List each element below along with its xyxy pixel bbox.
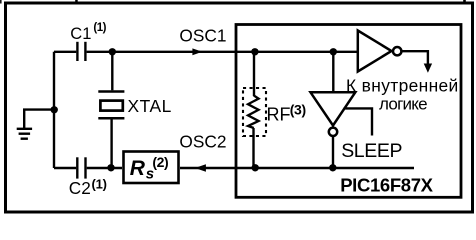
svg-text:XTAL: XTAL xyxy=(128,96,172,116)
crystal XTAL xyxy=(98,90,124,93)
wire C2 to Rs xyxy=(87,167,122,169)
wire buffer output xyxy=(402,51,428,64)
artifact tick left xyxy=(0,0,2,4)
svg-text:PIC16F87X: PIC16F87X xyxy=(340,174,433,195)
svg-text:логике: логике xyxy=(379,95,427,114)
svg-text:C1: C1 xyxy=(70,25,91,43)
svg-text:RF: RF xyxy=(267,105,291,125)
artifact tick x464 xyxy=(463,0,466,2)
op-amp U2 feedback inverter xyxy=(311,92,356,125)
wire RF top xyxy=(253,52,255,96)
svg-text:(1): (1) xyxy=(93,22,106,34)
node feedback-OSC2 xyxy=(329,164,336,171)
wire left vertical xyxy=(53,52,55,168)
wire C2 left segment xyxy=(54,167,76,169)
svg-text:SLEEP: SLEEP xyxy=(341,140,402,162)
svg-text:OSC2: OSC2 xyxy=(179,131,226,151)
svg-text:OSC1: OSC1 xyxy=(179,26,226,46)
svg-text:(1): (1) xyxy=(92,177,107,192)
svg-text:К внутренней: К внутренней xyxy=(346,75,459,95)
svg-text:R: R xyxy=(130,157,146,180)
capacitor C2 xyxy=(76,157,78,178)
svg-text:(2): (2) xyxy=(152,154,168,170)
wire OSC1 left segment xyxy=(54,51,76,53)
node ground branch xyxy=(51,106,58,113)
svg-text:(3): (3) xyxy=(290,102,306,118)
wire OSC2 xyxy=(180,167,414,169)
artifact tick x76 xyxy=(75,0,78,2)
node C2-XTAL-Rs xyxy=(107,164,114,171)
wire XTAL top drop xyxy=(111,52,113,91)
node inverter input branch xyxy=(330,48,337,55)
node RF-OSC1 xyxy=(251,48,258,55)
wire feedback output xyxy=(332,137,334,168)
dashed box around RF xyxy=(243,88,266,136)
svg-text:C2: C2 xyxy=(69,178,91,198)
wire SLEEP enable xyxy=(344,108,373,135)
ground xyxy=(17,128,32,130)
node C1-XTAL-OSC1 xyxy=(109,48,116,55)
arrow to internal logic xyxy=(424,64,432,73)
wire XTAL bottom drop xyxy=(110,118,112,168)
resistor RF zigzag xyxy=(248,96,259,129)
wire OSC1 main xyxy=(87,51,357,53)
op-amp U1 buffer to internal logic xyxy=(358,31,392,72)
wire RF bottom xyxy=(252,128,254,168)
arrow into OSC1 xyxy=(192,48,202,55)
wire ground branch xyxy=(24,110,54,128)
capacitor C1 xyxy=(76,42,78,61)
microcontroller box PIC16F87X xyxy=(236,25,461,198)
resistor Rs box xyxy=(124,152,179,184)
node RF-OSC2 xyxy=(252,164,259,171)
arrow into Rs xyxy=(195,164,206,171)
wire branch down to feedback inverter xyxy=(332,52,334,93)
